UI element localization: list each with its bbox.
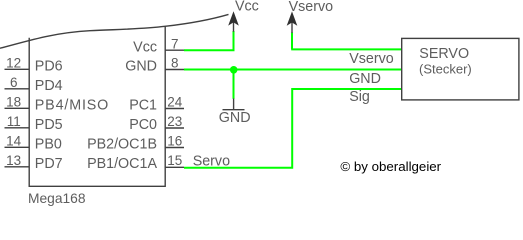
svg-text:PB4/MISO: PB4/MISO [35,97,109,113]
svg-text:PC0: PC0 [129,117,157,133]
svg-text:PB0: PB0 [35,136,62,152]
svg-text:PD5: PD5 [35,117,63,133]
svg-text:PC1: PC1 [129,98,157,114]
svg-text:18: 18 [6,95,21,110]
svg-text:GND: GND [349,71,381,87]
svg-text:6: 6 [10,75,18,90]
svg-text:PB1/OC1A: PB1/OC1A [87,156,157,172]
svg-text:Servo: Servo [193,154,230,170]
svg-text:7: 7 [171,36,179,51]
svg-text:Vcc: Vcc [235,0,259,15]
svg-text:23: 23 [167,114,182,129]
svg-text:Sig: Sig [349,89,370,105]
svg-text:© by oberallgeier: © by oberallgeier [340,159,441,174]
svg-text:GND: GND [125,59,157,75]
svg-text:Vcc: Vcc [133,39,157,55]
svg-text:PD6: PD6 [35,58,63,74]
svg-text:GND: GND [219,110,251,126]
svg-text:PD7: PD7 [35,156,63,172]
svg-text:(Stecker): (Stecker) [419,61,472,76]
svg-text:16: 16 [167,134,182,149]
svg-text:SERVO: SERVO [419,46,469,62]
svg-text:24: 24 [167,95,183,110]
svg-text:15: 15 [167,153,182,168]
svg-text:Vservo: Vservo [349,51,394,67]
svg-text:Vservo: Vservo [289,0,334,15]
svg-text:Mega168: Mega168 [28,191,86,206]
svg-text:8: 8 [171,56,179,71]
svg-text:12: 12 [6,56,21,71]
svg-text:PD4: PD4 [35,78,63,94]
svg-text:13: 13 [6,153,21,168]
svg-text:PB2/OC1B: PB2/OC1B [87,137,157,153]
svg-text:11: 11 [7,114,21,129]
svg-text:14: 14 [6,134,22,149]
